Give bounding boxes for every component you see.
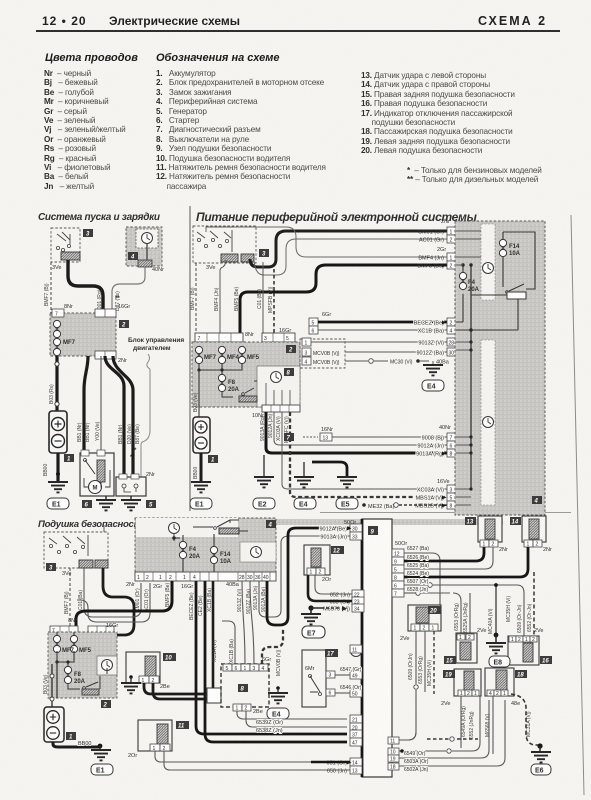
svg-text:2Nr: 2Nr xyxy=(499,547,508,553)
svg-text:1: 1 xyxy=(511,637,514,643)
svg-text:16Nr: 16Nr xyxy=(321,427,333,433)
svg-text:9012A (Jn): 9012A (Jn) xyxy=(417,444,444,450)
svg-text:MF5: MF5 xyxy=(247,355,260,361)
svg-text:E7: E7 xyxy=(307,631,316,638)
svg-text:10A: 10A xyxy=(220,559,232,565)
svg-text:40Nr: 40Nr xyxy=(152,267,164,273)
svg-text:E6: E6 xyxy=(535,768,544,775)
svg-text:2: 2 xyxy=(146,575,149,581)
svg-text:11: 11 xyxy=(178,724,185,730)
svg-text:6Gr: 6Gr xyxy=(322,312,331,318)
svg-text:2: 2 xyxy=(468,635,471,641)
svg-text:D01 (Rg): D01 (Rg) xyxy=(97,289,103,310)
svg-text:4: 4 xyxy=(489,691,492,697)
svg-text:6: 6 xyxy=(235,666,238,672)
svg-text:B03 (Rs): B03 (Rs) xyxy=(49,384,55,404)
svg-text:BMF5 (Be): BMF5 (Be) xyxy=(165,582,171,607)
svg-text:10: 10 xyxy=(390,750,396,756)
svg-text:6525A (JnRg): 6525A (JnRg) xyxy=(463,602,469,633)
svg-text:1: 1 xyxy=(183,575,186,581)
svg-text:30: 30 xyxy=(247,575,253,581)
svg-text:6528 (Jn): 6528 (Jn) xyxy=(407,587,428,593)
svg-text:2Be: 2Be xyxy=(253,709,263,715)
svg-text:MF7: MF7 xyxy=(62,648,75,654)
svg-text:13: 13 xyxy=(467,520,474,526)
svg-text:2Nr: 2Nr xyxy=(543,547,552,553)
svg-text:2: 2 xyxy=(532,637,535,643)
svg-text:Питание периферийной электронн: Питание периферийной электронной системы xyxy=(196,210,478,224)
svg-text:16: 16 xyxy=(542,659,549,665)
svg-text:8: 8 xyxy=(450,452,453,458)
svg-text:AC01 (Or): AC01 (Or) xyxy=(144,589,150,612)
svg-text:3: 3 xyxy=(329,673,332,679)
svg-text:18: 18 xyxy=(390,765,396,771)
svg-text:2: 2 xyxy=(245,706,248,712)
svg-text:2Nr: 2Nr xyxy=(441,219,450,225)
svg-text:1: 1 xyxy=(459,635,462,641)
svg-text:2Gr: 2Gr xyxy=(153,584,162,590)
svg-text:MCV0B (Vj): MCV0B (Vj) xyxy=(313,360,340,366)
svg-text:16Ve: 16Ve xyxy=(437,479,450,485)
svg-text:3Ve: 3Ve xyxy=(206,265,215,271)
svg-text:4: 4 xyxy=(193,575,196,581)
svg-text:1: 1 xyxy=(137,575,140,581)
svg-text:7: 7 xyxy=(55,312,58,318)
svg-text:6546 (Or): 6546 (Or) xyxy=(340,685,362,691)
svg-text:E4: E4 xyxy=(272,712,281,719)
svg-text:16Gr: 16Gr xyxy=(181,584,193,590)
svg-text:1: 1 xyxy=(159,575,162,581)
svg-text:3: 3 xyxy=(253,666,256,672)
svg-text:19: 19 xyxy=(390,757,396,763)
svg-text:BB00: BB00 xyxy=(193,467,199,479)
svg-text:E8: E8 xyxy=(494,660,503,667)
svg-text:E4: E4 xyxy=(299,502,308,509)
svg-text:ME32 (Ba): ME32 (Ba) xyxy=(368,504,394,510)
svg-text:6: 6 xyxy=(394,584,397,590)
svg-text:BB1 (Nr): BB1 (Nr) xyxy=(118,424,124,444)
svg-text:15: 15 xyxy=(446,659,453,665)
svg-text:18: 18 xyxy=(517,673,524,679)
svg-text:6539Z (Or): 6539Z (Or) xyxy=(256,720,283,726)
svg-text:9: 9 xyxy=(394,560,397,566)
svg-text:BB00: BB00 xyxy=(43,464,49,476)
svg-text:11: 11 xyxy=(352,648,357,654)
svg-text:MCV0B (Vj): MCV0B (Vj) xyxy=(313,351,340,357)
svg-text:7: 7 xyxy=(394,592,397,598)
svg-text:6553 (OrRg): 6553 (OrRg) xyxy=(454,603,460,631)
svg-text:2: 2 xyxy=(121,323,126,329)
svg-text:21: 21 xyxy=(352,718,358,724)
svg-text:16Gr: 16Gr xyxy=(279,328,291,334)
svg-text:2: 2 xyxy=(423,626,426,632)
svg-text:E4: E4 xyxy=(427,384,436,391)
svg-text:1: 1 xyxy=(474,691,477,697)
svg-text:1: 1 xyxy=(305,341,308,347)
svg-text:1: 1 xyxy=(414,626,417,632)
svg-text:XC1B (Ba): XC1B (Ba) xyxy=(418,329,444,335)
svg-text:4: 4 xyxy=(534,499,539,505)
svg-text:10A: 10A xyxy=(509,251,521,257)
svg-text:16Gr: 16Gr xyxy=(118,304,130,310)
svg-text:MC31A (Vj): MC31A (Vj) xyxy=(526,711,532,737)
svg-text:MCV0B (Vj): MCV0B (Vj) xyxy=(276,649,282,676)
svg-text:9013A (Jn): 9013A (Jn) xyxy=(253,585,259,610)
svg-text:AC01 (Gr): AC01 (Gr) xyxy=(419,238,444,244)
svg-text:4: 4 xyxy=(262,666,265,672)
svg-text:9013Z (Vi): 9013Z (Vi) xyxy=(418,341,444,347)
svg-text:BMF4 (Jn): BMF4 (Jn) xyxy=(418,256,444,262)
svg-text:1: 1 xyxy=(527,542,530,548)
svg-text:F14: F14 xyxy=(509,244,520,250)
svg-text:30: 30 xyxy=(449,351,455,357)
svg-text:F8: F8 xyxy=(228,380,236,386)
svg-text:1: 1 xyxy=(503,691,506,697)
svg-text:2Ve: 2Ve xyxy=(400,636,409,642)
svg-text:2Ve: 2Ve xyxy=(534,628,543,634)
svg-text:50Or: 50Or xyxy=(395,541,407,547)
svg-text:**: ** xyxy=(115,296,120,302)
svg-text:4: 4 xyxy=(450,329,453,335)
svg-text:3: 3 xyxy=(264,336,267,342)
svg-text:8Nr: 8Nr xyxy=(68,618,77,624)
svg-text:9013A (Jn): 9013A (Jn) xyxy=(320,535,347,541)
svg-text:2: 2 xyxy=(288,348,293,354)
svg-text:652 (Jn): 652 (Jn) xyxy=(330,593,350,599)
svg-text:B03 (Ve): B03 (Ve) xyxy=(43,674,49,694)
svg-text:6: 6 xyxy=(312,329,315,335)
svg-text:5: 5 xyxy=(226,666,229,672)
svg-text:19: 19 xyxy=(445,673,452,679)
svg-text:MF5: MF5 xyxy=(79,648,92,654)
svg-text:6525 (Ba): 6525 (Ba) xyxy=(407,563,429,569)
svg-text:20A: 20A xyxy=(189,554,201,560)
svg-text:6509 (Or-Jn): 6509 (Or-Jn) xyxy=(517,604,523,633)
svg-text:CE2 (Be): CE2 (Be) xyxy=(198,595,204,616)
svg-text:E5: E5 xyxy=(341,502,350,509)
svg-text:9012Z (Ba): 9012Z (Ba) xyxy=(416,351,444,357)
svg-text:11: 11 xyxy=(390,739,395,745)
svg-text:BMF7 (Bj): BMF7 (Bj) xyxy=(64,591,70,614)
svg-text:6538Z (Jn): 6538Z (Jn) xyxy=(256,728,283,734)
svg-text:4: 4 xyxy=(305,360,308,366)
svg-text:CM01 (Or): CM01 (Or) xyxy=(135,588,141,612)
svg-text:4: 4 xyxy=(268,523,273,529)
svg-text:34: 34 xyxy=(354,607,360,613)
svg-text:2: 2 xyxy=(450,238,453,244)
svg-text:F14: F14 xyxy=(220,552,231,558)
svg-text:1: 1 xyxy=(525,637,528,643)
svg-text:MPSFB (Vj): MPSFB (Vj) xyxy=(268,286,274,313)
svg-text:XC1B (Ba): XC1B (Ba) xyxy=(207,588,213,612)
svg-text:BMF7 (Bj): BMF7 (Bj) xyxy=(190,287,196,310)
svg-text:36: 36 xyxy=(255,575,261,581)
svg-text:4: 4 xyxy=(130,255,135,261)
svg-text:20A: 20A xyxy=(74,679,86,685)
svg-text:8: 8 xyxy=(394,576,397,582)
svg-text:2: 2 xyxy=(467,691,470,697)
svg-text:9012A (Jn): 9012A (Jn) xyxy=(268,413,274,438)
svg-text:12: 12 xyxy=(333,549,340,555)
svg-text:BB00: BB00 xyxy=(78,741,91,747)
svg-text:2Nr: 2Nr xyxy=(126,582,135,588)
svg-text:Подушка безопасности: Подушка безопасности xyxy=(38,519,148,530)
svg-text:1: 1 xyxy=(483,542,486,548)
svg-text:2Or: 2Or xyxy=(322,577,331,583)
svg-text:BB1 (Nr): BB1 (Nr) xyxy=(85,422,91,442)
svg-text:1: 1 xyxy=(244,666,247,672)
svg-text:2: 2 xyxy=(103,703,108,709)
svg-text:16Gr: 16Gr xyxy=(106,623,118,629)
svg-text:BMF5 (Be): BMF5 (Be) xyxy=(417,264,444,270)
svg-text:BMF7 (Bj): BMF7 (Bj) xyxy=(44,283,50,306)
svg-text:50: 50 xyxy=(352,692,358,698)
svg-text:7: 7 xyxy=(198,336,201,342)
svg-text:5: 5 xyxy=(394,568,397,574)
svg-text:E1: E1 xyxy=(96,768,105,775)
svg-text:2: 2 xyxy=(492,542,495,548)
svg-text:BECEZ (Be): BECEZ (Be) xyxy=(189,592,195,620)
svg-text:6Gr: 6Gr xyxy=(262,657,271,663)
svg-text:двигателем: двигателем xyxy=(133,345,171,352)
svg-text:XC03A (Vi): XC03A (Vi) xyxy=(276,416,282,441)
svg-text:F4: F4 xyxy=(189,547,197,553)
svg-text:30: 30 xyxy=(352,527,358,533)
svg-text:1: 1 xyxy=(236,706,239,712)
svg-text:MC35H (Vi): MC35H (Vi) xyxy=(506,596,512,622)
svg-text:2Or: 2Or xyxy=(128,753,137,759)
svg-text:2Ve: 2Ve xyxy=(477,628,486,634)
svg-text:6503A (Or): 6503A (Or) xyxy=(404,759,429,765)
svg-text:B03 (Ve): B03 (Ve) xyxy=(193,392,199,412)
svg-text:28: 28 xyxy=(239,575,245,581)
svg-text:BB1 (Nr): BB1 (Nr) xyxy=(77,422,83,442)
svg-text:6509 (OrJn): 6509 (OrJn) xyxy=(408,653,414,680)
svg-text:6547 (Gr): 6547 (Gr) xyxy=(340,667,362,673)
svg-text:XC1A (Vi): XC1A (Vi) xyxy=(212,640,218,662)
svg-text:BECEZ (Be): BECEZ (Be) xyxy=(414,321,444,327)
svg-text:Блок управления: Блок управления xyxy=(128,337,184,344)
svg-text:Система пуска и зарядки: Система пуска и зарядки xyxy=(38,212,160,223)
svg-text:8: 8 xyxy=(450,504,453,510)
svg-text:F4: F4 xyxy=(468,280,476,286)
svg-text:37: 37 xyxy=(352,733,358,739)
svg-text:CM01 (Or): CM01 (Or) xyxy=(418,230,444,236)
svg-text:2: 2 xyxy=(450,264,453,270)
svg-text:E2: E2 xyxy=(258,502,267,509)
svg-text:3Ve: 3Ve xyxy=(52,265,61,271)
svg-text:E1: E1 xyxy=(195,502,204,509)
svg-text:9008 (Bj): 9008 (Bj) xyxy=(422,436,444,442)
svg-text:MF7: MF7 xyxy=(204,355,217,361)
svg-text:2: 2 xyxy=(496,691,499,697)
svg-text:3: 3 xyxy=(305,351,308,357)
svg-text:40: 40 xyxy=(263,575,269,581)
svg-text:6552 (JnRg): 6552 (JnRg) xyxy=(469,711,475,739)
svg-text:M: M xyxy=(93,486,98,492)
svg-text:2: 2 xyxy=(169,575,172,581)
svg-text:1: 1 xyxy=(310,570,313,576)
svg-text:Y00 (Ve): Y00 (Ve) xyxy=(95,421,101,441)
svg-text:6507 (Or): 6507 (Or) xyxy=(407,579,429,585)
svg-text:1: 1 xyxy=(432,626,435,632)
svg-text:10: 10 xyxy=(165,656,172,662)
svg-text:8Nr: 8Nr xyxy=(245,332,254,338)
svg-text:MF4: MF4 xyxy=(227,355,240,361)
svg-text:47: 47 xyxy=(352,741,358,747)
svg-text:8Nr: 8Nr xyxy=(64,304,73,310)
svg-text:E1: E1 xyxy=(52,502,61,509)
svg-text:2Ve: 2Ve xyxy=(441,701,450,707)
svg-text:6553 (OrRg): 6553 (OrRg) xyxy=(418,656,424,684)
svg-text:6549 (Or): 6549 (Or) xyxy=(404,751,426,757)
svg-text:6527 (Ba): 6527 (Ba) xyxy=(407,546,429,552)
svg-text:D20 (Ve): D20 (Ve) xyxy=(127,424,133,444)
svg-text:9013A (Rg): 9013A (Rg) xyxy=(260,415,266,441)
svg-text:17: 17 xyxy=(327,652,334,658)
svg-text:2Be: 2Be xyxy=(160,684,170,690)
svg-text:20A: 20A xyxy=(468,287,480,293)
svg-text:MC35H (Vi): MC35H (Vi) xyxy=(427,660,433,686)
svg-text:33: 33 xyxy=(352,535,358,541)
svg-text:MF7: MF7 xyxy=(63,340,76,346)
svg-text:650 (Jn): 650 (Jn) xyxy=(327,769,347,775)
svg-text:2Nr: 2Nr xyxy=(146,472,155,478)
svg-text:6524 (Be): 6524 (Be) xyxy=(407,571,429,577)
svg-text:12: 12 xyxy=(394,552,400,558)
svg-text:MC30 (Vi): MC30 (Vi) xyxy=(390,360,413,366)
svg-text:9012A (Be): 9012A (Be) xyxy=(261,587,267,612)
svg-text:2Nr: 2Nr xyxy=(118,358,127,364)
svg-text:5: 5 xyxy=(286,336,289,342)
svg-text:13: 13 xyxy=(323,436,329,442)
svg-text:BMF4 (Jn): BMF4 (Jn) xyxy=(214,287,220,311)
svg-text:49: 49 xyxy=(352,674,358,680)
svg-text:XC1B (Ba): XC1B (Ba) xyxy=(229,639,235,663)
svg-text:40Ba: 40Ba xyxy=(226,582,240,588)
svg-text:6: 6 xyxy=(329,691,332,697)
svg-text:M6568 (V): M6568 (V) xyxy=(485,713,491,737)
svg-text:MBS1A (Vj): MBS1A (Vj) xyxy=(416,496,445,502)
svg-text:28: 28 xyxy=(449,341,455,347)
svg-text:13: 13 xyxy=(352,769,358,775)
svg-text:2: 2 xyxy=(319,570,322,576)
svg-text:C01 (Ba): C01 (Ba) xyxy=(257,289,263,309)
svg-text:20A: 20A xyxy=(228,387,240,393)
svg-text:2: 2 xyxy=(536,542,539,548)
svg-text:20: 20 xyxy=(429,609,437,615)
svg-text:14: 14 xyxy=(512,520,519,526)
svg-text:6Mr: 6Mr xyxy=(305,666,315,672)
svg-text:MC40A (Vi): MC40A (Vi) xyxy=(488,608,494,634)
svg-text:6526 (Be): 6526 (Be) xyxy=(407,555,429,561)
svg-text:9013A (Rg): 9013A (Rg) xyxy=(416,452,444,458)
svg-text:9012A (Be): 9012A (Be) xyxy=(319,527,347,533)
svg-text:6549A (OrRg): 6549A (OrRg) xyxy=(461,706,467,737)
svg-text:40Nr: 40Nr xyxy=(439,425,451,431)
svg-text:XC03A (Vi): XC03A (Vi) xyxy=(417,488,444,494)
svg-text:14: 14 xyxy=(352,761,358,767)
svg-text:2Gr: 2Gr xyxy=(437,247,446,253)
svg-text:2: 2 xyxy=(518,637,521,643)
svg-text:BMF5 (Be): BMF5 (Be) xyxy=(234,286,240,311)
svg-text:6552 (Or-Jn): 6552 (Or-Jn) xyxy=(527,603,533,632)
svg-text:6502A (Jn): 6502A (Jn) xyxy=(404,767,429,773)
svg-text:F8: F8 xyxy=(74,672,82,678)
svg-text:B87 (Be): B87 (Be) xyxy=(135,424,141,444)
svg-text:48e: 48e xyxy=(511,701,520,707)
